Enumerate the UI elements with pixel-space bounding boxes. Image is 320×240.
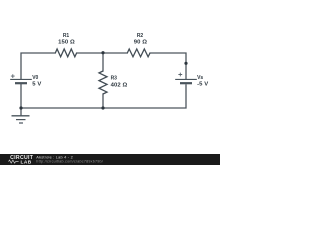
svg-text:R1: R1 <box>63 33 70 39</box>
svg-text:LAB: LAB <box>21 159 32 165</box>
svg-text:5 V: 5 V <box>32 81 41 87</box>
svg-text:http://circuitlab.com/c/abc789: http://circuitlab.com/c/abc789xb79b/ <box>36 160 104 164</box>
svg-text:V0: V0 <box>32 75 38 81</box>
svg-text:R2: R2 <box>137 33 144 39</box>
svg-text:402 Ω: 402 Ω <box>111 82 128 88</box>
svg-text:-5 V: -5 V <box>197 82 208 88</box>
svg-text:90 Ω: 90 Ω <box>134 40 147 46</box>
svg-text:150 Ω: 150 Ω <box>58 40 75 46</box>
svg-text:R3: R3 <box>111 76 118 82</box>
svg-text:Vs: Vs <box>197 75 203 81</box>
